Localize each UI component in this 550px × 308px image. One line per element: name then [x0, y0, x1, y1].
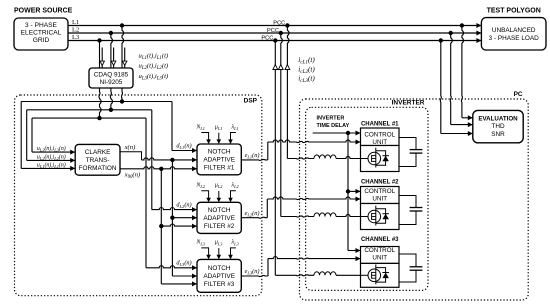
svg-text:PCC: PCC — [273, 21, 285, 27]
svg-text:DSP: DSP — [244, 97, 258, 104]
svg-text:CHANNEL #3: CHANNEL #3 — [361, 237, 399, 243]
svg-text:λL1: λL1 — [231, 124, 239, 131]
svg-text:eL3(n): eL3(n) — [245, 268, 260, 276]
svg-text:eL1(n): eL1(n) — [245, 152, 260, 160]
svg-text:dL1(n): dL1(n) — [176, 142, 191, 150]
svg-text:TEST POLYGON: TEST POLYGON — [487, 8, 541, 15]
svg-text:NOTCHADAPTIVEFILTER #2: NOTCHADAPTIVEFILTER #2 — [203, 207, 235, 230]
svg-text:PCC: PCC — [267, 28, 279, 34]
svg-text:λL2: λL2 — [231, 183, 240, 190]
svg-text:L1: L1 — [72, 19, 79, 26]
svg-text:NL3: NL3 — [195, 240, 204, 247]
svg-text:eL2(n): eL2(n) — [245, 210, 260, 218]
svg-text:PCC: PCC — [261, 36, 273, 42]
svg-text:CHANNEL #2: CHANNEL #2 — [361, 180, 399, 186]
svg-text:UNBALANCED3 - PHASE LOAD: UNBALANCED3 - PHASE LOAD — [489, 27, 539, 42]
svg-text:NL2: NL2 — [195, 183, 205, 190]
svg-text:μL1: μL1 — [215, 124, 223, 131]
svg-text:INVERTER: INVERTER — [392, 100, 425, 107]
svg-text:L3: L3 — [72, 34, 80, 41]
svg-text:μL2: μL2 — [215, 183, 223, 190]
svg-text:CHANNEL #1: CHANNEL #1 — [361, 122, 399, 128]
svg-text:NL1: NL1 — [195, 124, 204, 131]
svg-text:L2: L2 — [72, 26, 79, 33]
svg-text:dL2(n): dL2(n) — [176, 201, 191, 209]
svg-text:PC: PC — [514, 91, 523, 98]
svg-text:NOTCHADAPTIVEFILTER #3: NOTCHADAPTIVEFILTER #3 — [203, 265, 235, 288]
svg-text:NOTCHADAPTIVEFILTER #1: NOTCHADAPTIVEFILTER #1 — [203, 149, 235, 172]
svg-text:μL3: μL3 — [215, 240, 223, 247]
svg-text:dL3(n): dL3(n) — [176, 260, 191, 268]
svg-text:λL3: λL3 — [231, 240, 239, 247]
svg-text:x(n): x(n) — [124, 144, 137, 151]
svg-text:POWER SOURCE: POWER SOURCE — [14, 8, 73, 15]
